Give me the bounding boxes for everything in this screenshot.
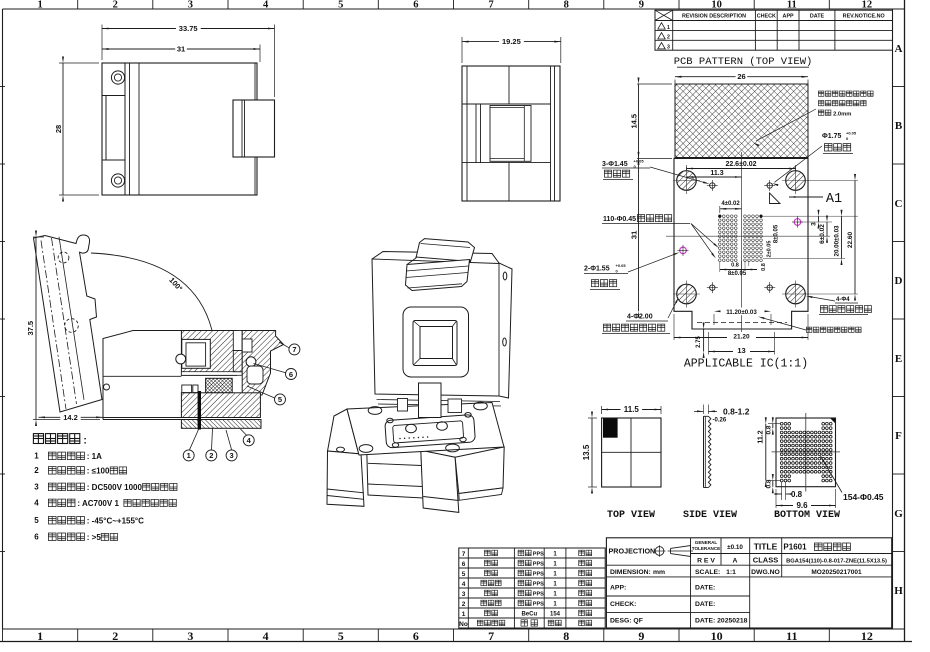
svg-text:PPS: PPS: [533, 592, 544, 598]
svg-text:6: 6: [413, 629, 419, 643]
svg-text:4: 4: [263, 0, 269, 11]
svg-text:: -45°C~+155°C: : -45°C~+155°C: [87, 517, 144, 526]
svg-text:19.25: 19.25: [502, 37, 521, 46]
isometric view: lid handle tab lower plate: [406, 260, 470, 291]
closed-socket top view: latch block: [233, 100, 275, 157]
svg-text:E: E: [895, 353, 902, 365]
closed-socket top view: hinge blocks: [102, 95, 125, 97]
svg-text:0.8: 0.8: [731, 263, 739, 269]
isometric view: base top face: [347, 403, 504, 456]
svg-text:7: 7: [292, 345, 296, 354]
svg-text:1: 1: [37, 629, 43, 643]
svg-text:+0.05: +0.05: [616, 263, 627, 268]
socket side view: dim 19.25: [462, 41, 561, 43]
svg-text:DATE: DATE: [810, 13, 825, 19]
section view: clamp window: [182, 339, 211, 368]
isometric view: plate posts: [406, 424, 417, 433]
PCB pattern: 4 small positioning holes: [710, 183, 715, 188]
section view: presser column hatch: [233, 351, 242, 372]
svg-text:: DC500V 1000: : DC500V 1000: [87, 483, 143, 492]
svg-text:APP:: APP:: [610, 585, 626, 592]
closed-socket top view: dim 31: [102, 48, 260, 50]
svg-text:SCALE:: SCALE:: [695, 569, 720, 576]
svg-text:13: 13: [737, 346, 745, 355]
svg-text:CLASS: CLASS: [753, 556, 778, 565]
svg-text:22.60: 22.60: [847, 231, 854, 248]
svg-text:14.2: 14.2: [63, 413, 78, 422]
svg-text:7: 7: [462, 551, 466, 558]
svg-text:8±0.05: 8±0.05: [774, 224, 780, 243]
section view: clamp hatched block: [181, 331, 236, 376]
svg-text:6±0.02: 6±0.02: [819, 224, 826, 244]
PCB pattern: right-side dim 6±0.02: [826, 222, 828, 236]
isometric view: lid frame middle: [413, 321, 457, 366]
PCB pattern: right-side dim 3: [762, 215, 858, 217]
PCB pattern: dim 11.3: [687, 176, 742, 178]
svg-text:DATE:: DATE:: [695, 585, 715, 592]
svg-text:DWG.NO: DWG.NO: [751, 569, 780, 576]
svg-text:PPS: PPS: [533, 602, 544, 608]
svg-text:DIMENSION:: DIMENSION:: [610, 569, 651, 576]
svg-text:APPLICABLE IC(1:1): APPLICABLE IC(1:1): [684, 358, 808, 371]
svg-text:11.2: 11.2: [758, 430, 765, 443]
PCB pattern: dim 26: [675, 76, 808, 78]
svg-text::: :: [83, 435, 87, 447]
svg-text:37.5: 37.5: [26, 321, 35, 336]
svg-text:2-Φ1.55: 2-Φ1.55: [584, 266, 610, 273]
svg-text:2: 2: [34, 466, 39, 475]
svg-text:11.5: 11.5: [624, 405, 640, 414]
section view: probe pin (black): [198, 391, 201, 430]
bottom dim 13: [709, 351, 775, 353]
svg-text:10: 10: [711, 0, 722, 11]
svg-text:31: 31: [177, 45, 185, 54]
svg-text:BeCu: BeCu: [521, 612, 537, 618]
isometric view: lid frame outer: [403, 307, 469, 377]
section view: balloon 1: [190, 430, 199, 450]
isometric view: base left side wall: [328, 409, 362, 455]
svg-text:1: 1: [34, 452, 39, 461]
PCB pattern: A1 marker arrow: [789, 196, 823, 198]
socket side view: latch mechanism: [475, 104, 477, 163]
svg-text:5: 5: [278, 395, 282, 404]
isometric view: base center recessed face: [367, 448, 424, 498]
PCB pattern: keep-out dashed line: [697, 322, 787, 324]
svg-text:3: 3: [230, 451, 234, 460]
svg-text:TOLERANCE: TOLERANCE: [692, 546, 721, 551]
svg-text:DESG: QF: DESG: QF: [610, 618, 643, 625]
svg-text:: AC700V 1: : AC700V 1: [77, 499, 119, 508]
section view: white slot: [233, 331, 242, 351]
svg-text:PCB PATTERN (TOP VIEW): PCB PATTERN (TOP VIEW): [674, 56, 813, 68]
svg-text:3: 3: [34, 483, 39, 492]
svg-text:6: 6: [34, 533, 39, 542]
PCB pattern: dim 22.6: [687, 168, 796, 170]
PCB pattern: corner triangle marker: [770, 193, 781, 204]
closed-socket top view: hinge pin circles: [111, 71, 124, 84]
section view: balloon 7: [279, 342, 289, 348]
row ticks left: [0, 86, 5, 88]
section view: balloon 4: [241, 429, 247, 436]
isometric view: plate probe dots: [399, 438, 401, 440]
svg-text:5: 5: [338, 629, 344, 643]
svg-text:2: 2: [113, 0, 118, 11]
svg-text:BOTTOM VIEW: BOTTOM VIEW: [774, 510, 840, 521]
svg-text:11: 11: [787, 0, 797, 11]
IC bottom view: dim 0.8 top: [772, 424, 774, 428]
isometric view: lid right edge: [498, 263, 500, 396]
svg-text:TOP VIEW: TOP VIEW: [607, 510, 655, 521]
svg-text:6: 6: [289, 370, 293, 379]
PCB pattern: right-side dim 20.00±0.03: [763, 258, 845, 260]
PCB pattern: dim 31: [638, 158, 640, 311]
svg-text:R E V: R E V: [697, 557, 715, 564]
svg-text:11.3: 11.3: [710, 170, 723, 177]
PCB pattern: horizontal centerline: [666, 235, 830, 237]
svg-text:7: 7: [488, 0, 493, 11]
svg-text:+0.05: +0.05: [634, 159, 645, 164]
isometric view: lid handle tab upper fold: [416, 239, 475, 262]
section view: 100 degree arc: [91, 253, 214, 337]
svg-text:H: H: [894, 585, 903, 597]
section view: bottom plate hatched: [181, 420, 261, 429]
svg-text:12: 12: [862, 0, 873, 11]
svg-text:0.8: 0.8: [765, 425, 772, 434]
IC top view: A1 black mark: [603, 418, 618, 437]
IC side view: dim 0.8-1.2: [703, 405, 705, 415]
section view: pin bed white cells: [182, 385, 192, 393]
svg-text:No: No: [459, 621, 468, 628]
closed-socket top view: lid edge double lines: [129, 63, 131, 195]
title block: [606, 538, 891, 628]
svg-text:26: 26: [737, 72, 745, 81]
IC bottom view: corner chamfer: [831, 418, 835, 422]
svg-text:2: 2: [462, 601, 466, 608]
svg-text:REV.NOTICE.NO: REV.NOTICE.NO: [843, 13, 885, 19]
PCB pattern: magenta positioning holes: [680, 247, 687, 254]
svg-text:C: C: [895, 198, 903, 210]
section view: roller circle: [176, 354, 186, 364]
section view: balloon 2: [212, 429, 213, 450]
svg-text:+0.05: +0.05: [846, 131, 857, 136]
svg-text:33.75: 33.75: [179, 24, 198, 33]
svg-text:31: 31: [629, 231, 638, 239]
closed-socket top view: right edge lines: [254, 63, 256, 100]
revision triangles: [658, 23, 665, 29]
IC bottom view: dim 9.6: [775, 489, 777, 508]
projection symbol: [655, 547, 664, 556]
isometric view: lid silhouette: [372, 252, 512, 399]
svg-text:B: B: [895, 120, 903, 132]
isometric view: base right flange face: [421, 450, 459, 512]
svg-text:154-Φ0.45: 154-Φ0.45: [843, 492, 884, 502]
svg-text:21.20: 21.20: [733, 334, 750, 341]
bottom dim 2.75: [703, 329, 705, 352]
IC bottom view: ball grid: [780, 422, 832, 482]
svg-text:1:1: 1:1: [726, 569, 736, 576]
svg-text:PROJECTION: PROJECTION: [609, 547, 656, 556]
IC top view: body: [602, 418, 661, 487]
svg-text:±0.10: ±0.10: [727, 544, 743, 551]
performance parameters heading: [33, 434, 43, 444]
IC bottom view: centerlines: [805, 413, 807, 492]
PCB pattern: dim 14.5: [638, 84, 640, 158]
PCB pattern: board outline with bottom notch: [674, 158, 808, 329]
isometric view: pocket corner reliefs: [387, 418, 393, 423]
PCB pattern: vertical centerline: [741, 152, 743, 334]
svg-text:1: 1: [667, 25, 670, 31]
svg-text:3: 3: [667, 45, 670, 51]
label component area note: [818, 91, 824, 96]
IC side view: body with balls: [703, 416, 705, 487]
svg-text:mm: mm: [653, 569, 665, 576]
svg-text:APP: APP: [783, 13, 794, 19]
svg-text:4-Φ4: 4-Φ4: [836, 297, 850, 303]
revision table X-box: [655, 10, 673, 20]
section view: dim 37.5: [35, 237, 37, 420]
section view: contact plate strip: [181, 372, 242, 376]
isometric view: base right side face: [455, 447, 504, 494]
svg-text:9: 9: [638, 629, 644, 643]
svg-text:28: 28: [54, 125, 63, 133]
revision table: [655, 10, 893, 50]
PCB pattern: solder pad grid 110-x0.45: [719, 215, 763, 262]
svg-text:1: 1: [37, 0, 42, 11]
svg-text:8±0.05: 8±0.05: [728, 271, 747, 277]
svg-text:TITLE: TITLE: [754, 542, 778, 552]
socket side view: horizontal splits: [462, 103, 551, 105]
svg-text:: 1A: : 1A: [87, 452, 102, 461]
isometric view: lid top front edge: [372, 259, 499, 264]
svg-text:3-Φ1.45: 3-Φ1.45: [602, 161, 628, 168]
svg-text:6: 6: [462, 561, 466, 568]
svg-text:154: 154: [550, 612, 561, 618]
section view: lid internal phantom lines: [41, 241, 66, 410]
svg-text:3: 3: [811, 222, 818, 226]
svg-text:4±0.02: 4±0.02: [721, 201, 740, 207]
section view: balloon 6: [254, 364, 286, 373]
bottom dim 11.20±0.03: [715, 308, 768, 316]
svg-text:13.5: 13.5: [582, 444, 591, 460]
svg-text:4: 4: [34, 499, 39, 508]
isometric view: base pocket ring: [385, 414, 476, 448]
svg-text:PPS: PPS: [533, 572, 544, 578]
IC bottom view: dim 0.8 horizontal: [781, 482, 783, 500]
svg-text:5: 5: [462, 571, 466, 578]
section view: open lid outline: [34, 235, 103, 412]
isometric view: lid bottom edge: [377, 400, 501, 402]
svg-text:9: 9: [639, 0, 644, 11]
svg-text:5: 5: [338, 0, 343, 11]
isometric view: lid frame inner: [420, 327, 453, 359]
svg-text:PPS: PPS: [533, 552, 544, 558]
IC top view: dim 13.5: [591, 418, 593, 487]
svg-text:3: 3: [188, 0, 193, 11]
svg-text:4: 4: [462, 581, 466, 588]
svg-text:DATE:: DATE:: [695, 601, 715, 608]
column ticks top: [77, 0, 79, 9]
PCB pattern: right-side dim 22.60: [807, 180, 858, 182]
svg-text:P1601: P1601: [783, 543, 807, 552]
svg-text:D: D: [895, 275, 903, 287]
label keep-out area note: [806, 327, 812, 332]
IC top view: dim 11.5: [602, 409, 661, 411]
svg-text:3: 3: [462, 591, 466, 598]
svg-text:: >5: : >5: [87, 533, 102, 542]
IC bottom view: dim 0.8 bottom: [772, 481, 774, 487]
svg-text:2: 2: [667, 35, 670, 41]
isometric view: lid side holes: [503, 272, 507, 280]
closed-socket top view: body outline: [102, 63, 257, 195]
section view: balloon 5: [247, 386, 275, 398]
column ticks bottom: [77, 629, 79, 642]
PCB pattern: component-area crosshatch zone: [675, 84, 808, 158]
svg-text:22.6±0.02: 22.6±0.02: [725, 161, 756, 168]
svg-text:20.00±0.03: 20.00±0.03: [834, 225, 841, 256]
section view: IC crosshatched: [206, 378, 233, 393]
svg-text:7: 7: [488, 629, 494, 643]
svg-text:6: 6: [413, 0, 418, 11]
svg-text:GENERAL: GENERAL: [695, 540, 718, 545]
svg-text:11: 11: [786, 629, 797, 643]
socket side view: internal vertical lines: [466, 66, 468, 201]
closed-socket top view: dim 28: [62, 63, 64, 195]
section view: right cap hatched: [242, 331, 283, 396]
svg-text:8: 8: [563, 629, 569, 643]
section view: base left body: [103, 331, 181, 420]
svg-text:10: 10: [711, 629, 723, 643]
section view: base hatched: [181, 393, 260, 418]
socket side view: outline: [462, 66, 560, 201]
svg-text:2: 2: [112, 629, 118, 643]
svg-text:-0.26: -0.26: [713, 418, 727, 424]
svg-text:0.8-1.2: 0.8-1.2: [723, 407, 750, 417]
bottom dim 21.20: [674, 337, 808, 339]
svg-text:2.75: 2.75: [696, 336, 702, 348]
svg-text:0.8: 0.8: [791, 490, 803, 499]
sheet border frame: [3, 8, 905, 10]
row ticks right: [893, 86, 905, 88]
svg-text:G: G: [894, 508, 903, 520]
svg-text:11.20±0.03: 11.20±0.03: [726, 309, 757, 316]
IC bottom view: 154 balls leader: [821, 456, 843, 493]
IC bottom view: body: [776, 418, 836, 487]
svg-text:: ≤100: : ≤100: [87, 467, 110, 476]
svg-text:1: 1: [187, 451, 191, 460]
svg-text:DATE: 20250218: DATE: 20250218: [695, 618, 748, 625]
socket side view: lid split verticals: [508, 66, 510, 104]
svg-text:8: 8: [564, 0, 569, 11]
section view: balloon 3: [226, 430, 232, 450]
isometric view: base left flange face: [327, 451, 364, 506]
PCB pattern: 4 plated screw holes (hatched): [677, 171, 697, 191]
svg-text:2: 2: [209, 451, 213, 460]
isometric view: base floating plate: [393, 421, 464, 443]
svg-text:BGA154(110)-0.8-017-ZNE(11.5X1: BGA154(110)-0.8-017-ZNE(11.5X13.5): [786, 559, 887, 565]
isometric view: frame corner ticks: [414, 321, 421, 327]
svg-text:4-Φ2.00: 4-Φ2.00: [627, 314, 653, 321]
svg-text:0.8: 0.8: [765, 479, 772, 488]
parts list table: [459, 548, 605, 628]
svg-text:3: 3: [187, 629, 193, 643]
svg-text:1: 1: [462, 611, 466, 618]
svg-text:F: F: [895, 430, 902, 442]
svg-text:4: 4: [263, 629, 269, 643]
svg-text:PPS: PPS: [533, 582, 544, 588]
svg-text:CHECK: CHECK: [757, 13, 776, 19]
svg-text:2.0mm: 2.0mm: [833, 112, 851, 118]
isometric view: base screw holes: [368, 407, 382, 415]
svg-text:SIDE VIEW: SIDE VIEW: [683, 510, 737, 521]
svg-text:A: A: [895, 43, 903, 55]
svg-text:MO20250217001: MO20250217001: [811, 569, 862, 576]
PCB pattern: under-grid dims 0.8 / 8±0.05: [741, 261, 743, 276]
svg-text:Φ1.75: Φ1.75: [822, 133, 841, 140]
isometric view: pull rod: [419, 383, 442, 418]
svg-text:CHECK:: CHECK:: [610, 601, 636, 608]
svg-text:14.5: 14.5: [629, 114, 638, 129]
svg-text:A1: A1: [826, 192, 842, 207]
svg-text:REVISION DESCRIPTION: REVISION DESCRIPTION: [682, 13, 746, 19]
svg-text:PPS: PPS: [533, 562, 544, 568]
svg-text:0.8: 0.8: [761, 263, 767, 271]
svg-text:5: 5: [34, 516, 39, 525]
section view: dim 14.2: [39, 416, 103, 418]
section view: lid hole circles: [58, 252, 69, 263]
svg-text:2±0.05: 2±0.05: [767, 241, 773, 258]
svg-text:110-Φ0.45: 110-Φ0.45: [603, 216, 636, 223]
svg-text:A: A: [733, 557, 738, 564]
closed-socket top view: dim 33.75: [102, 28, 275, 30]
svg-text:9.6: 9.6: [796, 501, 808, 510]
isometric view: hinge tabs: [398, 399, 408, 412]
IC bottom view: dim 11.2: [768, 423, 780, 425]
svg-text:12: 12: [861, 629, 873, 643]
